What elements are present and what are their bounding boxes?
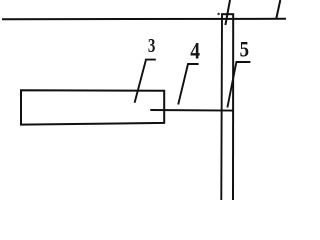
wire: connector from box to tube (151, 109, 233, 112)
tube left wall (220, 14, 223, 201)
svg-text:4: 4 (190, 38, 200, 63)
node: small dot left of tube cap (217, 13, 219, 15)
leader line for label 3 (135, 60, 156, 103)
tube right wall (232, 14, 234, 201)
wire: diagonal leader stub at tube top (225, 0, 230, 25)
box component 3 (21, 90, 164, 124)
leader line for label 4 (178, 64, 198, 105)
svg-text:5: 5 (240, 37, 249, 62)
tube top cap (221, 13, 234, 15)
svg-text:3: 3 (148, 35, 156, 57)
wire: top horizontal line (2, 18, 286, 20)
leader line for label 5 (227, 62, 250, 108)
wire: top-right diagonal leader stub (276, 0, 280, 19)
